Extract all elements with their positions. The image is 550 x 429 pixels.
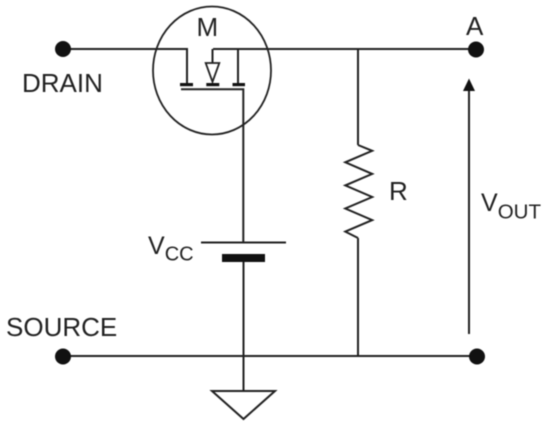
svg-text:A: A: [466, 11, 484, 41]
svg-text:SOURCE: SOURCE: [6, 312, 117, 342]
svg-text:R: R: [389, 176, 408, 206]
svg-text:DRAIN: DRAIN: [22, 68, 103, 98]
svg-text:M: M: [197, 12, 219, 42]
